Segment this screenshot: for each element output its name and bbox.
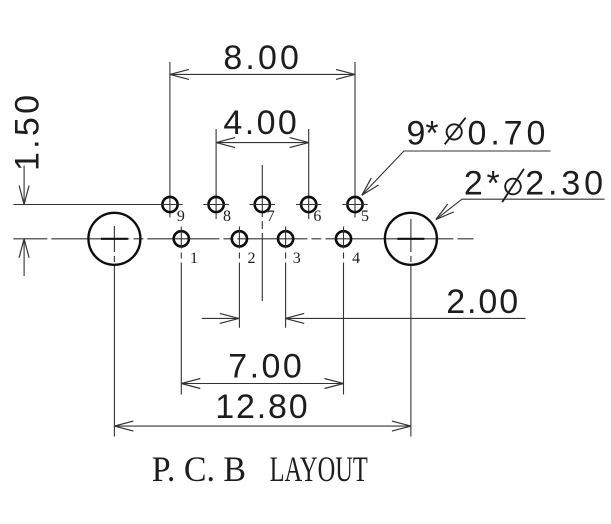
svg-text:8.00: 8.00 bbox=[223, 39, 299, 77]
pin hole 4 bbox=[336, 231, 351, 246]
dimension 2.00 left arrow tail bbox=[202, 317, 239, 319]
svg-text:7.00: 7.00 bbox=[228, 348, 302, 386]
mounting hole left center bar bbox=[101, 238, 128, 240]
svg-text:6: 6 bbox=[313, 208, 321, 225]
svg-text:1.50: 1.50 bbox=[9, 95, 47, 171]
pin 4 vertical extension bbox=[343, 227, 345, 395]
dimension 12.80 line bbox=[114, 425, 411, 427]
svg-text:7: 7 bbox=[267, 208, 275, 225]
dimension 7.00 line bbox=[181, 383, 343, 385]
pin hole 5 bbox=[347, 197, 362, 212]
mounting hole right bbox=[385, 213, 437, 265]
pin hole 6 bbox=[301, 197, 316, 212]
svg-text:2: 2 bbox=[248, 250, 256, 267]
extension line for top pin row bbox=[13, 204, 157, 206]
svg-text:2*: 2* bbox=[464, 165, 500, 203]
pin hole 8 bbox=[209, 197, 224, 212]
svg-text:4: 4 bbox=[352, 250, 360, 267]
extension line right of 4.00 (through pin 6) bbox=[308, 129, 310, 219]
pin hole 9 bbox=[162, 197, 177, 212]
pin 3 vertical extension bbox=[285, 227, 287, 328]
mounting hole left vertical centerline bbox=[113, 226, 115, 437]
mounting hole right vertical centerline bbox=[410, 219, 412, 437]
dimension 4.00 line bbox=[216, 142, 309, 144]
svg-text:0.70: 0.70 bbox=[468, 115, 546, 153]
svg-text:9: 9 bbox=[177, 208, 185, 225]
diameter symbol 2.30 bbox=[502, 169, 524, 202]
pin hole 1 bbox=[174, 231, 189, 246]
extension line left of 4.00 (through pin 8) bbox=[215, 129, 217, 219]
extension line right of 8.00 (through pin 5) bbox=[354, 62, 356, 218]
mounting hole right center bar bbox=[397, 238, 424, 240]
dimension 2.00 right line bbox=[285, 317, 525, 319]
pin hole 2 bbox=[232, 231, 247, 246]
dimension 1.50 upper arrow line bbox=[23, 166, 25, 205]
pin 2 vertical extension bbox=[238, 227, 240, 328]
svg-text:9*: 9* bbox=[407, 115, 439, 153]
pin hole 7 bbox=[255, 197, 270, 212]
pin 1 vertical extension bbox=[180, 227, 182, 395]
dimension 1.50 lower arrow line bbox=[23, 239, 25, 276]
svg-text:3: 3 bbox=[293, 250, 301, 267]
svg-text:2.30: 2.30 bbox=[525, 165, 603, 203]
svg-text:8: 8 bbox=[223, 208, 231, 225]
diameter symbol 0.70 bbox=[445, 118, 466, 145]
extension line left of 8.00 (through pin 9) bbox=[169, 62, 171, 218]
svg-text:12.80: 12.80 bbox=[215, 388, 308, 426]
horizontal centerline through holes bbox=[13, 238, 473, 240]
mounting hole left bbox=[88, 213, 140, 265]
svg-text:1: 1 bbox=[190, 250, 198, 267]
dimension 8.00 line bbox=[170, 73, 355, 75]
leader 2*dia2.30 line bbox=[436, 199, 605, 219]
svg-text:5: 5 bbox=[361, 208, 369, 225]
pin hole 3 bbox=[278, 231, 293, 246]
vertical centerline through pin 7 bbox=[261, 165, 263, 301]
svg-text:P. C. B: P. C. B bbox=[152, 449, 246, 489]
leader 9*dia0.70 line bbox=[362, 151, 551, 195]
svg-text:2.00: 2.00 bbox=[446, 283, 518, 321]
svg-text:4.00: 4.00 bbox=[223, 104, 296, 142]
svg-text:LAYOUT: LAYOUT bbox=[270, 449, 368, 489]
